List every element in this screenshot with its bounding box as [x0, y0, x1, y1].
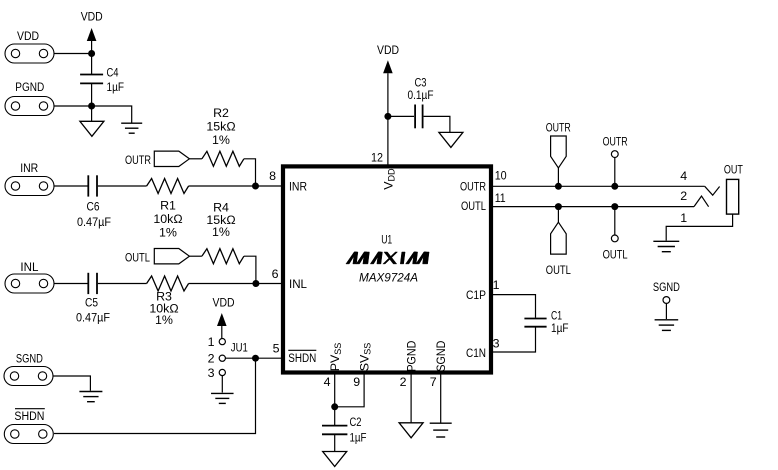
- wire C5 to R3: [98, 283, 147, 285]
- svg-text:0.47µF: 0.47µF: [77, 215, 111, 229]
- svg-text:OUTR: OUTR: [460, 179, 486, 193]
- svg-text:SGND: SGND: [434, 341, 448, 372]
- flag OUTR left: [154, 151, 189, 166]
- junction VDD/C4: [88, 50, 95, 57]
- net label SHDN pad (overline): [14, 409, 44, 423]
- svg-text:1: 1: [208, 335, 215, 349]
- svg-text:INR: INR: [20, 161, 38, 175]
- svg-text:4: 4: [680, 169, 687, 183]
- svg-text:VDD: VDD: [17, 29, 39, 43]
- svg-text:2: 2: [680, 189, 687, 203]
- wire JU1-2 to pin 5: [225, 357, 283, 359]
- svg-text:12: 12: [371, 151, 383, 165]
- svg-text:C1P: C1P: [466, 288, 486, 302]
- svg-text:INR: INR: [289, 179, 307, 193]
- svg-text:OUTL: OUTL: [546, 263, 571, 277]
- signal ground below SGND test point: [655, 320, 679, 331]
- svg-text:INL: INL: [20, 260, 38, 274]
- capacitor C3: [408, 76, 434, 129]
- jumper JU1: [219, 339, 248, 376]
- signal ground below SGND pad: [79, 392, 102, 402]
- wire VDD arrow to node: [387, 73, 389, 116]
- flag OUTR right: [551, 136, 567, 168]
- svg-text:1%: 1%: [212, 133, 230, 147]
- svg-text:5: 5: [273, 342, 280, 356]
- signal ground below SGND pin: [430, 423, 452, 437]
- wire C6 to R1: [98, 185, 147, 187]
- wire pin 7 SGND down: [440, 373, 442, 423]
- junction R3/R4/pin6: [252, 280, 259, 287]
- svg-text:VDD: VDD: [213, 296, 235, 310]
- wire R4 to INL node: [244, 256, 256, 283]
- svg-text:11: 11: [495, 191, 506, 205]
- wire flag to R4: [189, 255, 202, 257]
- wire JU1-3 to ground: [221, 376, 223, 393]
- svg-text:2: 2: [400, 375, 407, 389]
- svg-text:OUTR: OUTR: [546, 121, 571, 135]
- logo MAXIM: [346, 252, 429, 264]
- svg-text:OUT: OUT: [724, 162, 743, 176]
- signal ground right of C4: [121, 123, 142, 133]
- svg-text:1%: 1%: [159, 225, 177, 239]
- power ground below PGND: [399, 423, 423, 438]
- svg-text:8: 8: [269, 169, 276, 183]
- svg-text:SHDN: SHDN: [288, 351, 316, 365]
- pad SHDN: [4, 425, 53, 444]
- junction JU1/SHDN: [252, 355, 259, 362]
- test point SGND: [663, 297, 670, 304]
- svg-text:0.1µF: 0.1µF: [408, 88, 434, 102]
- wire C4 to PGND node: [91, 84, 93, 106]
- svg-text:JU1: JU1: [231, 340, 248, 354]
- svg-text:1%: 1%: [155, 313, 173, 327]
- svg-text:PGND: PGND: [15, 80, 44, 94]
- resistor R3: [147, 276, 189, 327]
- wire VDD pad to node: [54, 53, 92, 55]
- wire PGND pad to node: [54, 105, 92, 107]
- wire test point to OUTR rail: [614, 158, 616, 187]
- power symbol VDD arrow JU1: [217, 313, 227, 326]
- junction OUTL flag: [555, 203, 562, 210]
- svg-text:VDD: VDD: [81, 10, 103, 24]
- svg-text:15kΩ: 15kΩ: [206, 120, 235, 134]
- junction VDD/C3/pin12: [384, 113, 391, 120]
- svg-text:U1: U1: [381, 232, 392, 246]
- pad VDD: [5, 44, 54, 63]
- svg-text:4: 4: [324, 375, 331, 389]
- svg-text:C1N: C1N: [466, 346, 486, 360]
- svg-text:SGND: SGND: [653, 280, 680, 294]
- junction OUTL test point: [611, 203, 618, 210]
- svg-text:SGND: SGND: [16, 351, 43, 365]
- wire C3 to power ground: [424, 116, 450, 132]
- wire node to C3: [388, 115, 414, 117]
- svg-text:1: 1: [680, 211, 687, 225]
- svg-text:3: 3: [208, 366, 215, 380]
- wire C1 to pin 3 C1N: [491, 327, 536, 352]
- wire node to C4: [91, 54, 93, 75]
- wire pin 1 C1P to C1: [491, 295, 536, 318]
- junction R1/R2/pin8: [252, 183, 259, 190]
- junction OUTR flag: [555, 183, 562, 190]
- svg-text:1µF: 1µF: [350, 431, 367, 445]
- power symbol VDD arrow center: [383, 60, 393, 73]
- wire SHDN node to SHDN pad: [54, 358, 256, 433]
- svg-text:C2: C2: [350, 415, 362, 429]
- svg-text:MAX9724A: MAX9724A: [359, 271, 418, 285]
- pad INL: [5, 274, 54, 293]
- svg-text:C4: C4: [107, 66, 119, 80]
- svg-text:0.47µF: 0.47µF: [76, 311, 110, 325]
- wire PGND node to signal ground: [92, 106, 132, 123]
- wire R2 to INR node: [244, 159, 256, 186]
- wire SGND pad to ground: [53, 376, 90, 391]
- flag OUTL left: [154, 249, 189, 264]
- pad INR: [5, 177, 54, 196]
- wire OUTL rail to test point: [614, 207, 616, 235]
- wire jack sleeve to ground: [666, 214, 732, 240]
- capacitor C2: [322, 415, 367, 445]
- svg-text:1: 1: [493, 278, 500, 292]
- svg-text:1%: 1%: [212, 225, 230, 239]
- svg-text:OUTR: OUTR: [603, 135, 628, 149]
- svg-text:OUTL: OUTL: [125, 251, 150, 265]
- svg-text:R2: R2: [213, 106, 229, 120]
- wire C2 to power ground: [334, 435, 336, 452]
- resistor R1: [147, 179, 189, 240]
- pad SGND: [4, 367, 53, 386]
- svg-text:C5: C5: [85, 296, 98, 310]
- svg-text:VDD: VDD: [377, 43, 399, 57]
- svg-text:OUTL: OUTL: [603, 247, 628, 261]
- capacitor C4: [80, 66, 124, 95]
- svg-text:INL: INL: [289, 277, 307, 291]
- connector jack OUT body: [727, 179, 739, 214]
- svg-text:9: 9: [353, 375, 360, 389]
- jack switch contact ring: [694, 196, 709, 207]
- resistor R2: [202, 106, 244, 166]
- power symbol VDD arrow top-left: [87, 28, 97, 41]
- wire flag to R2: [189, 158, 202, 160]
- junction PVSS/SVSS/C2: [331, 403, 338, 410]
- capacitor C6: [77, 175, 111, 229]
- wire SGND test point to ground: [665, 303, 667, 319]
- flag OUTL right: [551, 222, 567, 254]
- svg-text:C6: C6: [87, 200, 100, 214]
- op-amp U1 MAX9724A body: [283, 166, 491, 372]
- test point OUTL: [611, 235, 618, 242]
- svg-text:1µF: 1µF: [551, 321, 569, 335]
- capacitor C5: [76, 273, 110, 325]
- svg-text:7: 7: [430, 375, 437, 389]
- wire arrow to JU1 pin1: [221, 326, 223, 339]
- signal ground below JU1: [211, 393, 234, 403]
- pad PGND: [5, 97, 54, 116]
- junction PGND/C4: [88, 103, 95, 110]
- wire INL pad to C5: [54, 283, 88, 285]
- wire pin 4 PVSS down: [334, 373, 336, 407]
- wire pin 10 OUTR rail: [493, 185, 705, 187]
- svg-text:OUTR: OUTR: [125, 153, 151, 167]
- wire node to pin 12: [387, 116, 389, 166]
- wire R1 to pin 8: [189, 185, 283, 187]
- resistor R4: [202, 201, 244, 264]
- wire node to power ground: [91, 106, 93, 121]
- svg-text:OUTL: OUTL: [461, 199, 486, 213]
- power ground right of C3: [439, 132, 463, 147]
- power ground below C2: [323, 452, 347, 467]
- svg-text:2: 2: [208, 352, 215, 366]
- svg-text:3: 3: [493, 336, 500, 350]
- capacitor C1: [524, 309, 568, 336]
- svg-text:1µF: 1µF: [107, 80, 125, 94]
- svg-text:10kΩ: 10kΩ: [153, 212, 182, 226]
- wire node to C2: [334, 407, 336, 425]
- signal ground below jack: [653, 241, 679, 251]
- wire pin 9 SVSS down: [335, 373, 364, 407]
- power ground below C4: [80, 121, 104, 136]
- pin name SHDN (overline): [288, 350, 316, 365]
- wire OUTL rail to flag: [557, 207, 559, 223]
- jack switch contact tip: [705, 186, 720, 195]
- wire VDD arrow stem: [91, 41, 93, 54]
- wire flag to OUTR rail: [557, 168, 559, 186]
- svg-text:R1: R1: [160, 199, 176, 213]
- junction OUTR test point: [611, 183, 618, 190]
- wire pin 2 PGND down: [410, 373, 412, 423]
- svg-text:SHDN: SHDN: [14, 409, 44, 423]
- svg-text:10: 10: [495, 169, 507, 183]
- test point OUTR: [611, 151, 618, 158]
- wire pin 11 OUTL rail: [493, 206, 694, 208]
- svg-text:PGND: PGND: [404, 341, 418, 372]
- svg-text:6: 6: [272, 267, 279, 281]
- wire INR pad to C6: [54, 185, 88, 187]
- wire R3 to pin 6: [189, 283, 283, 285]
